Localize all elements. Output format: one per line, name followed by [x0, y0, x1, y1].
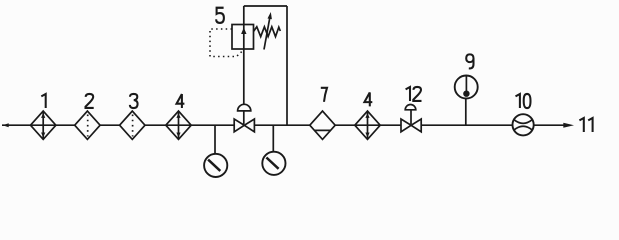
- shutoff valve 12: actuator dome: [405, 105, 416, 110]
- regulator 5: valve square: [232, 25, 254, 50]
- regulator 5: adjustment arrow through spring: [264, 15, 270, 50]
- label 2: [86, 94, 94, 108]
- shutoff valve 12: bowtie: [401, 119, 411, 132]
- filter 2: dotted element line: [87, 115, 89, 137]
- regulator 5: dashed pilot box: [210, 29, 244, 57]
- wire: filter 3 to shutoff valve under regulator: [145, 124, 234, 126]
- regulator 5: enclosure right edge down to main line: [286, 6, 288, 125]
- filter 2: diamond: [75, 111, 100, 139]
- shutoff valve under regulator: bowtie: [234, 119, 244, 132]
- wire: flow meter to outlet: [534, 124, 564, 126]
- wire: valve to separator 7: [254, 124, 309, 126]
- pressure gauge 1: needle: [208, 160, 220, 171]
- arrowhead: inlet arrow pointing left: [3, 123, 9, 127]
- pressure gauge 2: needle: [266, 158, 278, 169]
- cooler 4: vertical double arrow: [178, 112, 180, 139]
- wire: stem down to pressure gauge 2: [272, 125, 274, 152]
- regulator 5: enclosure top edge: [244, 5, 287, 7]
- pressure gauge 1: circle: [204, 154, 227, 177]
- label 5: [216, 8, 224, 23]
- cooler 4 (second): vertical double arrow: [367, 112, 369, 139]
- regulator 5: spring: [254, 27, 281, 37]
- arrowhead: outlet arrow pointing right: [563, 123, 574, 128]
- regulator 5: enclosure left edge / pilot line down to valve: [243, 6, 245, 124]
- thermometer 9: bulb dot: [463, 91, 469, 97]
- label 3: [130, 94, 138, 108]
- cooler 4: diamond: [166, 111, 191, 139]
- label 4: [177, 94, 185, 108]
- wire: main flow line left segment (inlet to filter 2): [2, 124, 75, 126]
- label 9: [466, 54, 473, 68]
- flow meter 10: bottom arc: [514, 126, 532, 130]
- label 12: [406, 87, 422, 101]
- filter 3: dotted element line: [132, 115, 134, 137]
- label 7: [321, 88, 327, 102]
- regulator 5: arrowhead inside square: [241, 28, 246, 35]
- wire: stem up to thermometer 9: [465, 98, 467, 125]
- shutoff valve 12: actuator stem: [410, 110, 412, 124]
- separator 7: chord line: [314, 129, 330, 131]
- label 4 (second): [364, 92, 372, 106]
- wire: valve 12 to flow meter 10: [421, 124, 512, 126]
- cooler 4 (second): diamond: [355, 111, 380, 139]
- label 1: [41, 94, 45, 108]
- filter 3: diamond: [120, 111, 145, 139]
- wire: stem down to pressure gauge 1: [214, 125, 216, 154]
- label 11: [579, 118, 592, 132]
- flow meter 10: top arc: [514, 120, 532, 124]
- separator 7: diamond: [310, 111, 335, 139]
- thermometer 9: stem line inside: [465, 77, 467, 93]
- pressure gauge 2: circle: [262, 152, 285, 175]
- thermometer 9: circle: [455, 76, 478, 99]
- actuator dome on shutoff valve: [238, 104, 251, 111]
- cooler 1: vertical double arrow: [42, 112, 44, 139]
- cooler 1: diamond: [31, 111, 56, 139]
- wire: between filter 2 and filter 3: [100, 124, 120, 126]
- wire: separator 7 to shutoff valve 12: [335, 124, 401, 126]
- flow meter 10: circle: [513, 114, 534, 135]
- label 10: [516, 94, 531, 108]
